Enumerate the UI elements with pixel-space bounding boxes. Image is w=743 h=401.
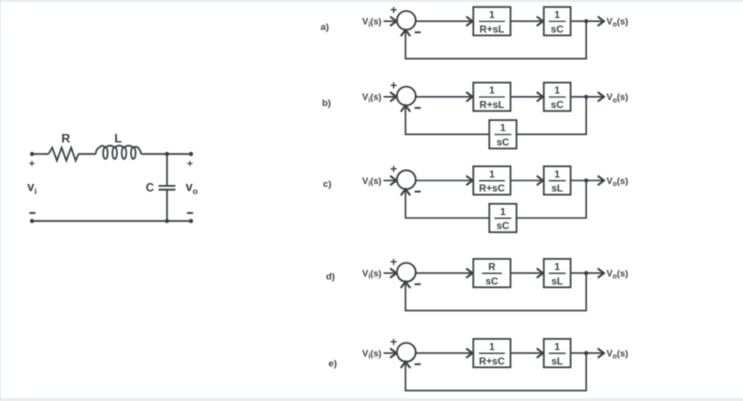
bottom junction dot xyxy=(165,219,169,223)
wire first block to second block row b xyxy=(511,96,544,98)
capacitor C xyxy=(159,186,176,190)
svg-text:+: + xyxy=(390,79,397,93)
wire first block to second block row e xyxy=(511,352,544,354)
svg-text:1: 1 xyxy=(489,169,495,180)
svg-text:R+sL: R+sL xyxy=(480,100,505,111)
wire first block to second block row a xyxy=(511,20,544,22)
svg-text:1: 1 xyxy=(554,169,560,180)
svg-text:d): d) xyxy=(326,272,335,283)
svg-text:Vi(s): Vi(s) xyxy=(362,176,381,188)
svg-text:+: + xyxy=(187,158,193,170)
minus sign at summer row e xyxy=(415,363,421,365)
wire summer to first block row c xyxy=(416,180,473,182)
svg-text:Vi(s): Vi(s) xyxy=(362,349,381,361)
svg-text:sC: sC xyxy=(551,100,564,111)
minus sign at summer row a xyxy=(415,31,421,33)
svg-text:C: C xyxy=(146,183,154,195)
svg-text:+: + xyxy=(29,158,35,170)
svg-text:1: 1 xyxy=(554,342,560,353)
circuit: input terminal dot top-left xyxy=(30,152,34,156)
minus sign right xyxy=(187,212,193,214)
feedback wire row a xyxy=(406,21,587,59)
wire input arrow row c xyxy=(384,180,397,182)
wire from input terminal to resistor xyxy=(33,153,49,155)
junction dot top xyxy=(165,152,169,156)
wire output row d xyxy=(571,272,604,274)
block 1/R+sL row b xyxy=(473,83,510,111)
wire input arrow row e xyxy=(384,352,397,354)
output terminal dot top-right xyxy=(189,152,193,156)
feedback wire right segment row c xyxy=(517,181,587,219)
feedback wire row d xyxy=(406,273,587,311)
summing junction row d xyxy=(397,263,416,282)
svg-text:R: R xyxy=(488,262,496,273)
bottom wire xyxy=(32,220,191,222)
svg-text:1: 1 xyxy=(500,123,506,134)
minus sign at summer row b xyxy=(415,107,421,109)
svg-text:L: L xyxy=(114,132,122,146)
block 1/R+sC row c xyxy=(473,166,510,194)
feedback wire row e xyxy=(406,353,587,391)
block 1/sL row d xyxy=(544,259,571,287)
wire summer to first block row a xyxy=(416,20,473,22)
svg-text:Vi(s): Vi(s) xyxy=(362,92,381,104)
svg-text:vi: vi xyxy=(27,180,36,196)
wire summer to first block row b xyxy=(416,96,473,98)
svg-text:1: 1 xyxy=(554,262,560,273)
svg-text:Vo(s): Vo(s) xyxy=(607,92,629,104)
svg-text:+: + xyxy=(390,255,397,269)
summing junction row e xyxy=(397,343,416,362)
wire inductor to junction and output terminal xyxy=(141,153,191,155)
svg-text:sL: sL xyxy=(551,184,563,195)
svg-text:+: + xyxy=(390,335,397,349)
svg-text:1: 1 xyxy=(489,10,495,21)
wire first block to second block row c xyxy=(511,180,544,182)
svg-text:sC: sC xyxy=(551,24,564,35)
wire junction down to capacitor xyxy=(166,154,168,185)
wire first block to second block row d xyxy=(511,272,544,274)
svg-text:sL: sL xyxy=(551,356,563,367)
svg-text:e): e) xyxy=(329,359,337,370)
svg-text:1: 1 xyxy=(489,342,495,353)
resistor R xyxy=(49,148,79,161)
feedback block 1/sC row b xyxy=(489,120,516,148)
wire resistor to inductor xyxy=(79,153,96,155)
svg-text:Vo(s): Vo(s) xyxy=(607,176,629,188)
minus sign at summer row d xyxy=(415,283,421,285)
wire summer to first block row e xyxy=(416,352,473,354)
block 1/sL row c xyxy=(544,166,571,194)
svg-text:Vo(s): Vo(s) xyxy=(607,348,629,360)
feedback block 1/sC row c xyxy=(489,204,516,232)
minus sign left xyxy=(29,212,35,214)
svg-text:Vi(s): Vi(s) xyxy=(362,269,381,281)
svg-text:+: + xyxy=(390,3,397,17)
minus sign at summer row c xyxy=(415,191,421,193)
svg-text:sC: sC xyxy=(486,276,499,287)
svg-text:Vi(s): Vi(s) xyxy=(362,17,381,29)
wire capacitor down to bottom junction xyxy=(166,190,168,221)
svg-text:R+sC: R+sC xyxy=(479,184,505,195)
bottom terminal dot left xyxy=(30,219,34,223)
svg-text:sL: sL xyxy=(551,276,563,287)
wire input arrow row d xyxy=(384,272,397,274)
svg-text:+: + xyxy=(390,162,397,176)
svg-text:R+sL: R+sL xyxy=(480,24,505,35)
summing junction row c xyxy=(397,170,416,189)
inductor L xyxy=(96,146,142,159)
block 1/sL row e xyxy=(544,339,571,367)
bottom terminal dot right xyxy=(189,219,193,223)
feedback wire left segment row b xyxy=(406,107,490,135)
block 1/sC row a xyxy=(544,7,571,35)
svg-text:Vo(s): Vo(s) xyxy=(607,17,629,29)
wire output row e xyxy=(571,352,604,354)
wire output row b xyxy=(571,96,604,98)
svg-text:c): c) xyxy=(323,179,331,190)
svg-text:1: 1 xyxy=(500,207,506,218)
svg-text:1: 1 xyxy=(554,86,560,97)
svg-text:sC: sC xyxy=(497,138,510,149)
svg-text:1: 1 xyxy=(489,86,495,97)
block 1/R+sC row e xyxy=(473,339,510,367)
summing junction row a xyxy=(397,11,416,30)
wire output row c xyxy=(571,180,604,182)
svg-text:b): b) xyxy=(322,98,331,109)
svg-text:1: 1 xyxy=(554,10,560,21)
node takeoff dot row e xyxy=(584,351,588,355)
svg-text:vo: vo xyxy=(186,180,198,196)
svg-text:a): a) xyxy=(321,22,329,33)
block R/sC row d xyxy=(473,259,510,287)
summing junction row b xyxy=(397,87,416,106)
wire input arrow row a xyxy=(384,20,397,22)
svg-text:sC: sC xyxy=(497,221,510,232)
node takeoff dot row d xyxy=(584,271,588,275)
feedback wire left segment row c xyxy=(406,190,490,218)
block 1/sC row b xyxy=(544,83,571,111)
svg-text:R: R xyxy=(61,132,70,146)
wire output row a xyxy=(571,20,604,22)
wire input arrow row b xyxy=(384,96,397,98)
svg-text:R+sC: R+sC xyxy=(479,356,505,367)
wire summer to first block row d xyxy=(416,272,473,274)
node takeoff dot row a xyxy=(584,19,588,23)
node takeoff dot row c xyxy=(584,178,588,182)
node takeoff dot row b xyxy=(584,95,588,99)
feedback wire right segment row b xyxy=(517,97,587,135)
svg-text:Vo(s): Vo(s) xyxy=(607,268,629,280)
block 1/R+sL row a xyxy=(473,7,510,35)
